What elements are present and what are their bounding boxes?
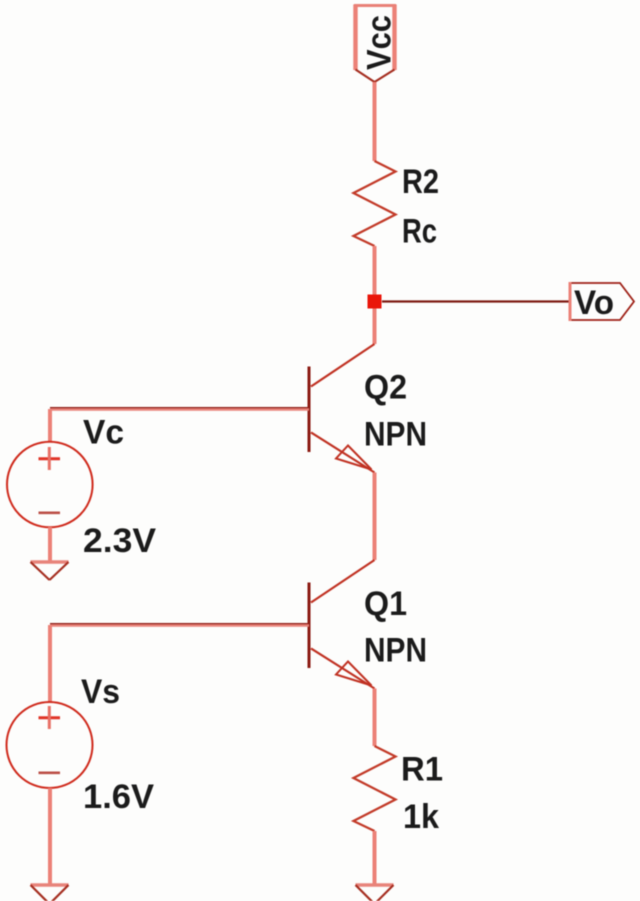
svg-text:Q1: Q1	[364, 585, 407, 623]
svg-text:2.3V: 2.3V	[83, 522, 156, 560]
svg-text:NPN: NPN	[364, 632, 427, 670]
svg-text:Vc: Vc	[83, 414, 124, 452]
svg-text:Vcc: Vcc	[361, 15, 399, 70]
svg-text:1k: 1k	[403, 798, 439, 836]
svg-text:R1: R1	[401, 751, 443, 789]
svg-text:1.6V: 1.6V	[83, 778, 154, 816]
svg-text:R2: R2	[402, 163, 439, 201]
svg-text:NPN: NPN	[364, 416, 427, 454]
svg-text:Vs: Vs	[81, 673, 120, 711]
svg-text:Rc: Rc	[402, 213, 437, 251]
svg-text:Q2: Q2	[364, 369, 407, 407]
svg-text:Vo: Vo	[574, 284, 614, 322]
